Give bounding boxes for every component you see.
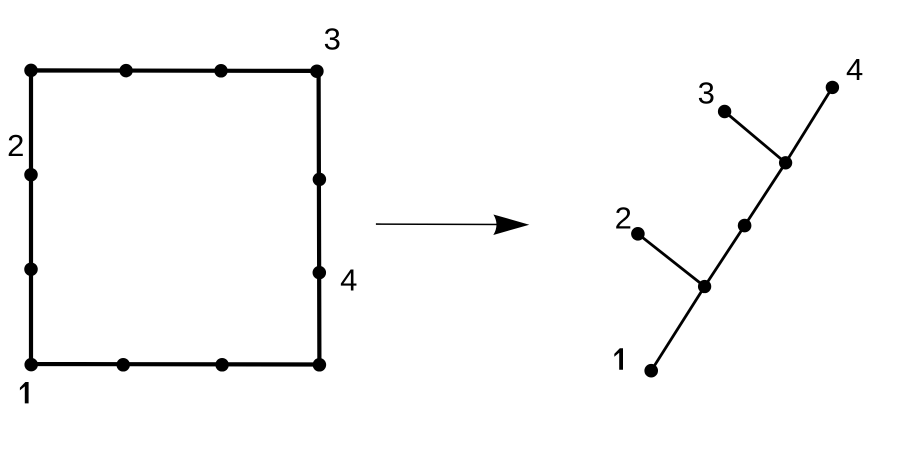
tree edge j1-m [705,226,745,287]
svg-text:4: 4 [846,52,863,87]
tree node 4 [826,81,839,94]
vertex dot square right-mid2 [313,266,327,280]
svg-text:4: 4 [340,263,357,298]
vertex dot square top-right [310,64,324,78]
tree edge j2-3 [725,112,786,163]
tree junction j1 [698,280,711,293]
tree node 2 [631,227,645,241]
arrow head [493,215,529,236]
tree junction j2 [779,156,792,169]
tree edge j1-2 [638,234,705,287]
vertex dot square bottom-mid1 [116,358,130,372]
vertex dot square top-left [24,64,38,78]
svg-text:2: 2 [7,128,24,163]
tree node 3 [718,105,731,118]
square outline [31,70,319,364]
vertex dot square bottom-right [313,358,327,372]
tree node 1 [644,364,658,378]
vertex dot square right-mid1 [313,173,327,187]
label 1 (square) [20,382,29,403]
vertex dot square left-mid1 [24,168,38,182]
vertex dot square top-mid2 [214,64,228,78]
vertex dot square bottom-mid2 [215,358,229,372]
svg-text:2: 2 [615,200,632,235]
label 1 (tree) [614,348,623,369]
svg-text:3: 3 [324,21,341,56]
tree node m [738,219,752,233]
tree edge 1-j1 [651,287,704,371]
arrow shaft [376,223,505,225]
vertex dot square left-mid2 [24,262,38,276]
svg-text:3: 3 [698,75,715,110]
vertex dot square bottom-left [24,358,38,372]
tree edge j2-4 [786,87,833,162]
tree edge m-j2 [745,163,786,226]
vertex dot square top-mid1 [119,64,133,78]
